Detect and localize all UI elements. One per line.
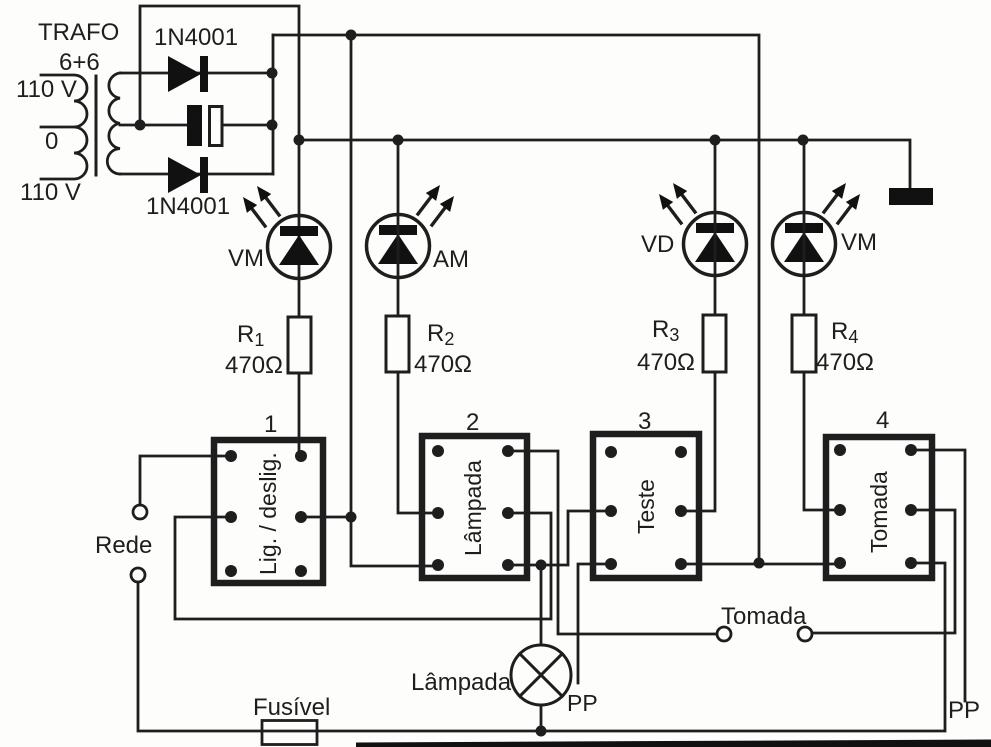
wire SW1 middle-right to DC+ branch down to SW2 bottom-left bbox=[301, 35, 438, 566]
wire secondary bottom to diode D2 bbox=[120, 173, 273, 176]
svg-text:470Ω: 470Ω bbox=[637, 349, 695, 376]
svg-text:VD: VD bbox=[641, 231, 674, 258]
svg-text:AM: AM bbox=[433, 246, 469, 273]
transformer T1 core bbox=[95, 76, 98, 175]
svg-text:Lâmpada: Lâmpada bbox=[460, 460, 486, 556]
node SW1 middle-right branch bbox=[346, 512, 357, 523]
wire secondary top to diode D1 bbox=[120, 72, 273, 75]
diode D1 1N4001 bbox=[168, 56, 208, 92]
svg-text:VM: VM bbox=[228, 245, 264, 272]
wire SW2 top-right to Tomada left terminal bbox=[508, 451, 716, 634]
lamp PP1 bbox=[511, 645, 571, 705]
wire rail to LED4 to R4 bbox=[803, 140, 806, 315]
node lamp bottom bbox=[536, 726, 547, 737]
terminal black bar bbox=[889, 188, 933, 205]
capacitor C1 bbox=[187, 105, 222, 146]
wire R4 to SW4 bbox=[804, 372, 836, 510]
svg-text:470Ω: 470Ω bbox=[225, 352, 283, 379]
node rail-LED2 bbox=[393, 135, 404, 146]
node rail-LED3 bbox=[710, 135, 721, 146]
svg-text:1N4001: 1N4001 bbox=[154, 24, 238, 51]
wire DC+ bus vertical bbox=[272, 35, 275, 174]
switch SW1 box bbox=[214, 440, 323, 583]
SW4 pins bbox=[834, 444, 917, 569]
transformer T1 primary 0V tap wire bbox=[41, 126, 74, 129]
LED VM2 bbox=[773, 213, 836, 276]
SW3 pins bbox=[605, 446, 687, 570]
LED AM bbox=[367, 215, 430, 278]
resistor R1 bbox=[288, 317, 311, 373]
wire SW2 bottom-right to SW3 middle-left bbox=[508, 511, 611, 565]
svg-text:R1: R1 bbox=[237, 321, 264, 350]
terminal Tomada right bbox=[798, 627, 812, 641]
svg-text:Tomada: Tomada bbox=[721, 603, 807, 630]
LED VD arrows bbox=[659, 183, 695, 223]
wire lamp top bbox=[540, 565, 543, 645]
node center tap junction bbox=[135, 120, 146, 131]
svg-text:Lig. / deslig.: Lig. / deslig. bbox=[255, 452, 281, 575]
wire center tap riser to top rail and down to LED1 bbox=[140, 6, 299, 317]
LED VD bbox=[684, 213, 747, 276]
node DC+ drop junction bbox=[754, 558, 765, 569]
transformer T1 primary coil bbox=[41, 75, 87, 179]
node rail-LED4 bbox=[798, 135, 809, 146]
wire SW3 bottom-right to SW4 bottom-left bbox=[681, 563, 840, 566]
svg-text:0: 0 bbox=[45, 128, 58, 155]
LED AM arrows bbox=[418, 185, 454, 225]
wire capacitor to + bus bbox=[224, 124, 273, 127]
svg-text:1: 1 bbox=[264, 411, 277, 438]
terminal Rede upper bbox=[133, 505, 147, 519]
svg-text:PP: PP bbox=[567, 690, 598, 716]
svg-text:R3: R3 bbox=[652, 316, 679, 345]
svg-text:Teste: Teste bbox=[633, 479, 659, 534]
node rail-LED1 bbox=[294, 135, 305, 146]
LED VM1 arrows bbox=[243, 186, 279, 226]
svg-text:1N4001: 1N4001 bbox=[146, 193, 230, 220]
wire Rede lower to fuse to bottom rail to SW4 bottom-right bbox=[138, 563, 945, 731]
svg-text:4: 4 bbox=[876, 407, 889, 434]
switch SW2 box bbox=[422, 436, 527, 578]
resistor R3 bbox=[703, 315, 726, 372]
wire rail to LED3 to R3 bbox=[714, 140, 717, 315]
wire SW1 top-left to Rede upper terminal bbox=[140, 456, 231, 505]
svg-text:3: 3 bbox=[638, 408, 651, 435]
svg-text:110 V: 110 V bbox=[16, 76, 77, 103]
svg-text:110 V: 110 V bbox=[20, 179, 81, 206]
svg-text:Rede: Rede bbox=[95, 532, 152, 559]
wire lamp bottom bbox=[540, 705, 543, 731]
node lamp tap bbox=[536, 560, 547, 571]
transformer T1 secondary coil bbox=[107, 73, 120, 174]
svg-text:Tomada: Tomada bbox=[866, 471, 892, 553]
svg-text:Lâmpada: Lâmpada bbox=[411, 669, 512, 696]
svg-text:VM: VM bbox=[841, 229, 877, 256]
LED VM2 arrows bbox=[824, 183, 860, 223]
terminal Tomada left bbox=[717, 627, 731, 641]
wire SW3 bottom-left to PP probe bbox=[578, 564, 611, 683]
svg-text:R2: R2 bbox=[427, 320, 454, 349]
wire SW4 top-right to PP probe right bbox=[911, 450, 965, 701]
switch SW3 box bbox=[593, 434, 699, 578]
svg-text:PP: PP bbox=[948, 697, 980, 724]
resistor R4 bbox=[792, 315, 816, 372]
wire SW1 middle-left to SW2 middle-right bbox=[175, 513, 551, 619]
wire DC+ top rail bbox=[273, 35, 759, 563]
svg-text:2: 2 bbox=[466, 409, 479, 436]
svg-text:TRAFO: TRAFO bbox=[38, 19, 119, 46]
svg-text:Fusível: Fusível bbox=[253, 694, 330, 721]
node capacitor junction bbox=[267, 120, 278, 131]
svg-text:470Ω: 470Ω bbox=[414, 351, 472, 378]
wire 0V rail to LEDs bbox=[299, 140, 910, 188]
node D1 cathode junction bbox=[267, 68, 278, 79]
wire rail to LED2 to R2 bbox=[397, 140, 400, 316]
fuse F1 bbox=[262, 721, 317, 745]
wire R2 to SW2 bbox=[398, 372, 434, 513]
wire R3 to SW3 bbox=[685, 372, 715, 511]
svg-text:6+6: 6+6 bbox=[59, 49, 100, 76]
SW1 pins bbox=[225, 450, 307, 577]
wire R1 to SW1 bbox=[298, 373, 301, 452]
SW2 pins bbox=[432, 445, 514, 571]
node DC+ rail to SW1 branch bbox=[346, 30, 357, 41]
switch SW4 box bbox=[826, 437, 932, 578]
bottom border bar bbox=[356, 740, 991, 747]
svg-text:R4: R4 bbox=[831, 318, 858, 347]
wire SW4 middle-right to Tomada right terminal bbox=[812, 510, 955, 633]
resistor R2 bbox=[386, 316, 409, 372]
diode D2 1N4001 bbox=[168, 157, 208, 193]
terminal Rede lower bbox=[131, 568, 145, 582]
LED VM1 bbox=[268, 216, 331, 279]
wire secondary center tap to capacitor bbox=[120, 124, 187, 127]
svg-text:470Ω: 470Ω bbox=[816, 349, 874, 376]
